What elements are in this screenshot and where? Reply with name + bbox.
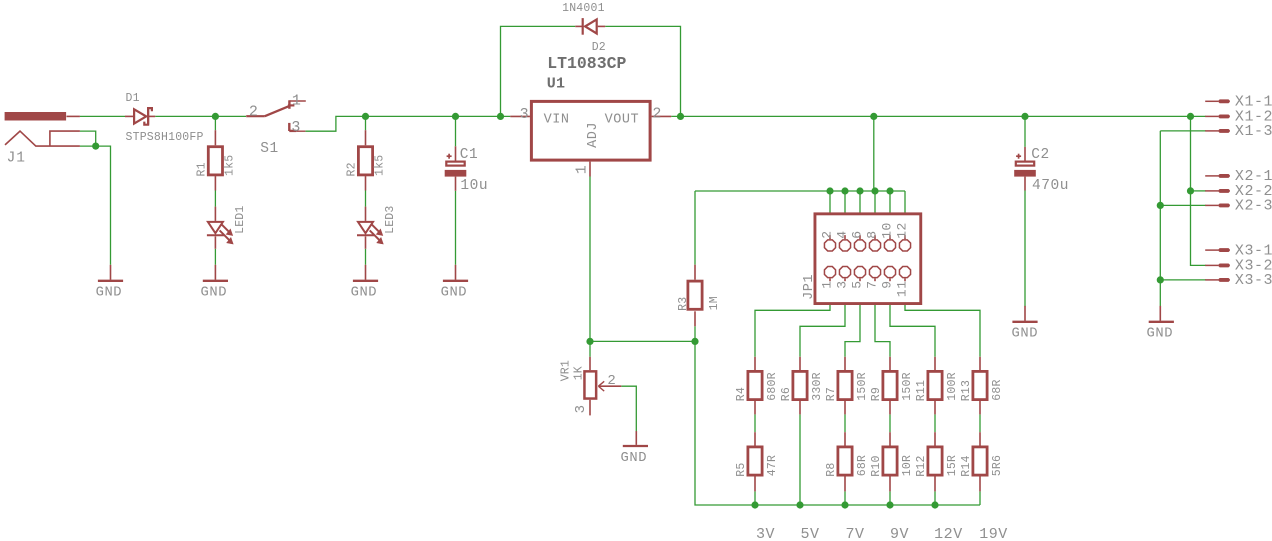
svg-text:R5: R5 (735, 462, 748, 476)
svg-text:3V: 3V (756, 526, 775, 541)
svg-text:47R: 47R (766, 455, 779, 476)
svg-text:6: 6 (849, 230, 864, 238)
svg-text:330R: 330R (811, 372, 824, 400)
svg-text:7V: 7V (846, 526, 865, 541)
svg-text:4: 4 (834, 230, 849, 238)
svg-text:1k5: 1k5 (374, 155, 387, 176)
svg-text:R13: R13 (960, 380, 973, 401)
svg-text:680R: 680R (766, 372, 779, 400)
svg-text:U1: U1 (547, 76, 565, 93)
svg-text:X1-3: X1-3 (1235, 123, 1272, 140)
svg-text:15R: 15R (946, 455, 959, 476)
svg-text:R8: R8 (825, 462, 838, 476)
svg-text:R12: R12 (915, 455, 928, 476)
svg-text:150R: 150R (901, 372, 914, 400)
svg-text:R7: R7 (825, 387, 838, 401)
svg-text:R14: R14 (960, 455, 973, 476)
svg-text:7: 7 (864, 280, 879, 288)
svg-text:R3: R3 (677, 297, 690, 311)
svg-text:2: 2 (819, 230, 834, 238)
svg-text:10u: 10u (460, 178, 488, 194)
svg-text:9: 9 (879, 280, 894, 288)
svg-text:D2: D2 (592, 41, 606, 54)
svg-text:GND: GND (201, 286, 228, 301)
svg-text:470u: 470u (1032, 178, 1069, 194)
svg-text:68R: 68R (991, 379, 1004, 400)
svg-text:1M: 1M (708, 296, 721, 310)
svg-text:2: 2 (607, 373, 616, 389)
svg-text:GND: GND (441, 286, 468, 301)
svg-text:5R6: 5R6 (991, 455, 1004, 476)
svg-text:GND: GND (351, 286, 378, 301)
svg-text:R11: R11 (915, 380, 928, 401)
svg-text:5: 5 (849, 280, 864, 288)
svg-text:3: 3 (573, 404, 589, 413)
svg-text:S1: S1 (260, 141, 279, 157)
svg-text:8: 8 (864, 230, 879, 238)
svg-text:1: 1 (292, 92, 302, 109)
svg-text:1: 1 (819, 280, 834, 288)
svg-text:LT1083CP: LT1083CP (547, 54, 626, 73)
svg-text:D1: D1 (126, 92, 140, 105)
svg-text:X2-3: X2-3 (1235, 198, 1272, 215)
svg-text:ADJ: ADJ (586, 122, 601, 148)
svg-text:R2: R2 (346, 162, 359, 176)
svg-text:1: 1 (574, 165, 591, 175)
svg-text:VR1: VR1 (560, 360, 573, 381)
svg-text:19V: 19V (979, 526, 1008, 541)
svg-text:100R: 100R (946, 372, 959, 400)
svg-text:X3-3: X3-3 (1235, 272, 1272, 289)
svg-text:2: 2 (249, 104, 259, 121)
svg-text:R10: R10 (870, 455, 883, 476)
svg-text:R4: R4 (735, 387, 748, 401)
svg-text:12: 12 (894, 222, 909, 239)
svg-text:1k5: 1k5 (224, 155, 237, 176)
svg-text:68R: 68R (856, 455, 869, 476)
svg-text:5V: 5V (801, 526, 820, 541)
svg-text:11: 11 (894, 280, 909, 297)
svg-text:10: 10 (879, 222, 894, 239)
svg-text:12V: 12V (934, 526, 963, 541)
svg-text:GND: GND (621, 451, 648, 466)
svg-text:STPS8H100FP: STPS8H100FP (126, 131, 204, 144)
svg-text:R6: R6 (780, 387, 793, 401)
svg-text:R1: R1 (196, 162, 209, 176)
svg-text:150R: 150R (856, 372, 869, 400)
svg-text:3: 3 (520, 106, 530, 123)
svg-text:LED1: LED1 (234, 205, 247, 233)
svg-text:2: 2 (652, 105, 662, 122)
svg-text:VOUT: VOUT (605, 113, 640, 128)
svg-text:J1: J1 (7, 151, 26, 167)
svg-text:GND: GND (1012, 327, 1039, 342)
svg-text:JP1: JP1 (802, 274, 817, 300)
svg-text:GND: GND (1147, 327, 1174, 342)
svg-text:R9: R9 (870, 387, 883, 401)
svg-text:GND: GND (96, 286, 123, 301)
svg-text:10R: 10R (901, 455, 914, 476)
svg-text:9V: 9V (890, 526, 909, 541)
svg-text:LED3: LED3 (384, 205, 397, 233)
svg-text:3: 3 (291, 119, 301, 136)
svg-text:1K: 1K (573, 366, 586, 380)
svg-text:3: 3 (834, 280, 849, 288)
svg-text:1N4001: 1N4001 (562, 2, 605, 15)
svg-text:C2: C2 (1031, 147, 1050, 163)
svg-text:C1: C1 (460, 147, 479, 163)
svg-text:VIN: VIN (544, 113, 570, 128)
